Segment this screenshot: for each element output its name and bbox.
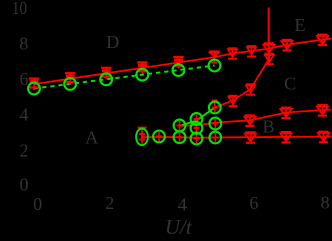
svg-text:A: A <box>85 128 98 148</box>
svg-text:2: 2 <box>105 193 114 213</box>
svg-text:4: 4 <box>178 194 188 214</box>
svg-text:6: 6 <box>20 69 29 89</box>
svg-text:10: 10 <box>12 0 27 18</box>
svg-text:C: C <box>284 74 296 94</box>
svg-text:8: 8 <box>321 192 330 212</box>
svg-text:0: 0 <box>20 174 29 194</box>
svg-text:2: 2 <box>20 140 29 160</box>
svg-text:E: E <box>295 15 306 35</box>
svg-text:4: 4 <box>20 104 29 124</box>
svg-text:D: D <box>106 32 119 52</box>
svg-text:U/t: U/t <box>165 215 193 239</box>
svg-text:6: 6 <box>249 193 258 213</box>
svg-text:B: B <box>262 116 274 136</box>
svg-text:0: 0 <box>33 194 42 214</box>
svg-text:8: 8 <box>19 33 28 53</box>
